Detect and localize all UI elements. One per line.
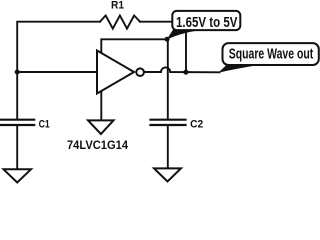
svg-text:74LVC1G14: 74LVC1G14 — [67, 138, 128, 152]
svg-text:1.65V to 5V: 1.65V to 5V — [176, 14, 237, 31]
svg-text:C1: C1 — [39, 119, 50, 131]
svg-text:R1: R1 — [111, 0, 124, 12]
svg-text:C2: C2 — [190, 119, 203, 131]
svg-text:Square Wave out: Square Wave out — [229, 46, 313, 63]
